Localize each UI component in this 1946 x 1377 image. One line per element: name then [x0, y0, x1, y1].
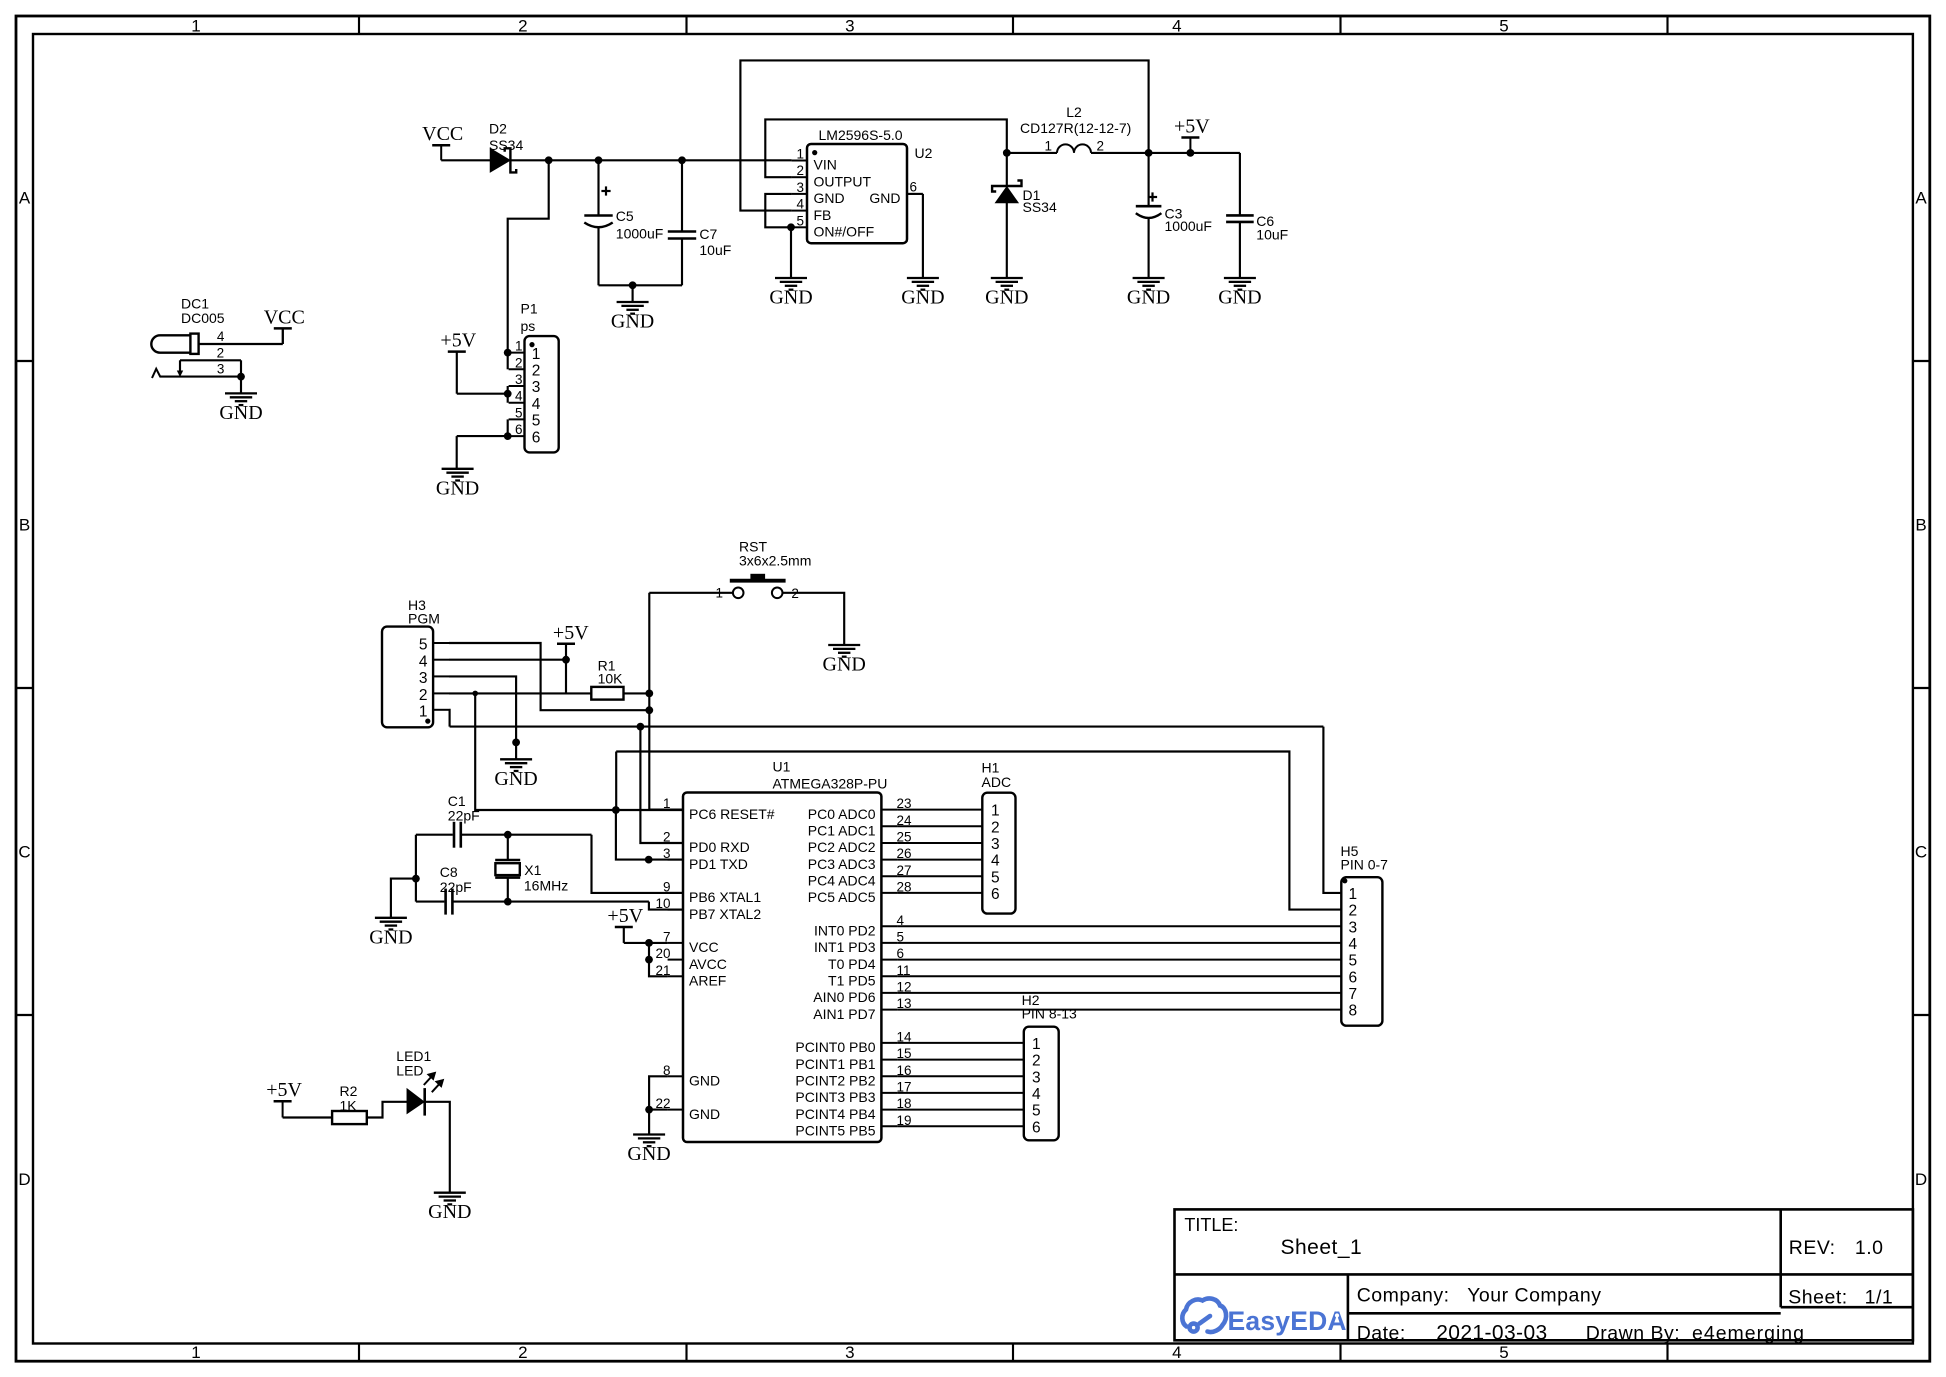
- junction H3 pin2 branch: [472, 691, 478, 697]
- ground crystal caps: [375, 918, 407, 930]
- svg-text:1: 1: [419, 703, 428, 720]
- svg-text:Your Company: Your Company: [1467, 1285, 1601, 1307]
- svg-text:GND: GND: [1127, 287, 1170, 309]
- wire H3pin2/reset horizontal: [475, 693, 683, 810]
- wire U1 GND pins: [649, 1076, 668, 1109]
- connector H2 PIN 8-13: [1024, 1027, 1059, 1141]
- svg-text:D: D: [18, 1170, 30, 1189]
- wire U1 PD2 to H5 pin 3: [897, 925, 1341, 927]
- wire U1 PB3 to H2 pin 4: [897, 1092, 1023, 1094]
- RST button bar: [730, 579, 786, 583]
- frame row tick right: [1913, 360, 1930, 362]
- svg-text:5: 5: [1499, 1343, 1508, 1362]
- wire U1 PB1 to H2 pin 2: [897, 1059, 1023, 1061]
- wire DC1 to ground: [240, 377, 242, 394]
- U2 pin 3 stub: [792, 193, 807, 195]
- svg-text:4: 4: [515, 389, 523, 404]
- ground DC1: [225, 393, 257, 405]
- svg-text:1: 1: [1044, 139, 1052, 154]
- svg-text:PIN 0-7: PIN 0-7: [1341, 857, 1389, 873]
- junction output rail +5V: [1187, 149, 1195, 157]
- wire to AREF: [649, 960, 668, 977]
- junction +5V / H3 pin4: [562, 656, 570, 664]
- svg-text:PGM: PGM: [408, 611, 440, 627]
- svg-text:1000uF: 1000uF: [1165, 218, 1212, 234]
- DC1 spring contact: [152, 369, 160, 378]
- svg-text:C: C: [18, 843, 30, 862]
- U2 pin 2 stub: [792, 176, 807, 178]
- svg-text:PC1 ADC1: PC1 ADC1: [808, 823, 876, 839]
- wire U1 PB0 to H2 pin 1: [897, 1042, 1023, 1044]
- capacitor C3 1000uF: [1148, 153, 1150, 206]
- svg-text:5: 5: [515, 405, 523, 420]
- capacitor C7 10uF: [681, 160, 683, 231]
- U1 pin 13 stub: [881, 1009, 897, 1011]
- svg-text:CD127R(12-12-7): CD127R(12-12-7): [1020, 120, 1131, 136]
- svg-text:PCINT2 PB2: PCINT2 PB2: [795, 1073, 875, 1089]
- svg-text:GND: GND: [369, 926, 412, 948]
- svg-text:PCINT3 PB3: PCINT3 PB3: [795, 1089, 875, 1105]
- svg-text:3: 3: [1349, 919, 1358, 936]
- svg-text:GND: GND: [611, 311, 654, 333]
- wire reset into U1 pin1: [649, 809, 683, 811]
- P1 pin1 indicator dot: [529, 342, 534, 347]
- svg-text:7: 7: [1349, 986, 1358, 1003]
- ground C6: [1224, 278, 1256, 290]
- svg-text:LED: LED: [396, 1062, 423, 1078]
- U1 pin 14 stub: [881, 1042, 897, 1044]
- connector H5 PIN 0-7: [1341, 877, 1382, 1025]
- junction C5-C7 gnd tap: [629, 281, 637, 289]
- H3 pin 4 stub: [433, 659, 449, 661]
- svg-text:D2: D2: [489, 120, 507, 136]
- frame column tick bottom: [1339, 1344, 1341, 1362]
- U1 pin 20 stub: [668, 959, 683, 961]
- P1 pin 1 stub: [509, 352, 525, 354]
- frame row tick left: [16, 687, 33, 689]
- svg-text:5: 5: [532, 413, 541, 430]
- U1 pin 9 stub: [668, 892, 683, 894]
- DC1 switch contact arrow: [179, 360, 181, 370]
- U1 pin 25 stub: [881, 842, 897, 844]
- svg-text:AREF: AREF: [689, 973, 726, 989]
- svg-text:3: 3: [217, 362, 225, 377]
- svg-text:PIN 8-13: PIN 8-13: [1022, 1006, 1077, 1022]
- svg-text:6: 6: [1349, 969, 1358, 986]
- svg-text:PC4 ADC4: PC4 ADC4: [808, 873, 876, 889]
- U2 pin 6 stub: [907, 193, 923, 195]
- svg-text:4: 4: [796, 197, 804, 212]
- svg-text:4: 4: [1032, 1086, 1041, 1103]
- U1 pin 26 stub: [881, 859, 897, 861]
- P1 pin 3 stub: [509, 385, 525, 387]
- frame row tick left: [16, 1014, 33, 1016]
- svg-text:C7: C7: [699, 226, 717, 242]
- MCU U1 ATMEGA328P-PU: [683, 793, 881, 1143]
- svg-text:TITLE:: TITLE:: [1184, 1215, 1238, 1235]
- U1 pin 18 stub: [881, 1109, 897, 1111]
- svg-text:L2: L2: [1066, 104, 1082, 120]
- wire X1 bottom lead: [507, 878, 509, 902]
- svg-text:T1 PD5: T1 PD5: [828, 973, 876, 989]
- svg-text:PCINT5 PB5: PCINT5 PB5: [795, 1123, 875, 1139]
- svg-text:GND: GND: [689, 1106, 720, 1122]
- wire D2 cathode to U2 VIN rail: [512, 159, 792, 161]
- wire C5/C7 bottoms: [599, 284, 683, 286]
- svg-text:OUTPUT: OUTPUT: [814, 173, 872, 189]
- P1 pin 5 stub: [509, 418, 525, 420]
- wire RXD down into U1 pin2: [640, 727, 683, 843]
- wire U1 PB5 to H2 pin 6: [897, 1125, 1023, 1127]
- U2 pin 1 stub: [792, 160, 807, 162]
- wire rail down to C6: [1239, 153, 1241, 216]
- svg-text:GND: GND: [1218, 287, 1261, 309]
- wire U2 OUTPUT loop to switch node: [765, 119, 1007, 177]
- svg-text:10: 10: [655, 896, 670, 911]
- wire DC1 pin4 up to VCC: [282, 328, 284, 344]
- H3 pin 1 stub: [433, 709, 449, 711]
- ground P1: [442, 469, 474, 481]
- wire LED1 cathode to ground: [426, 1102, 450, 1193]
- svg-text:GND: GND: [494, 768, 537, 790]
- P1 pin 2 stub: [509, 368, 525, 370]
- wire gnd to P1 pin6: [457, 435, 508, 437]
- svg-text:2: 2: [1032, 1053, 1041, 1070]
- ground U1: [633, 1135, 665, 1147]
- wire RXD down into H5 pin1: [1323, 727, 1341, 893]
- wire RXD route (H3 pin1 / U1 PD0 / H5 pin1): [450, 726, 1324, 728]
- svg-text:+5V: +5V: [553, 622, 589, 644]
- junction rail/C7: [678, 156, 686, 164]
- svg-text:3: 3: [419, 670, 428, 687]
- svg-text:GND: GND: [627, 1143, 670, 1165]
- wire U1 PD3 to H5 pin 4: [897, 942, 1341, 944]
- svg-text:e4emerging: e4emerging: [1692, 1323, 1805, 1345]
- wire to R1 left: [566, 692, 591, 694]
- svg-text:P1: P1: [521, 301, 538, 317]
- wire C8 right / XTAL2: [454, 901, 649, 903]
- wire C1/C8 left tie: [415, 835, 417, 902]
- power flag +5V: [1181, 136, 1199, 139]
- wire D1 anode to ground: [1006, 203, 1008, 279]
- svg-text:GND: GND: [219, 402, 262, 424]
- svg-text:PC5 ADC5: PC5 ADC5: [808, 889, 876, 905]
- svg-text:GND: GND: [436, 477, 479, 499]
- svg-text:INT0 PD2: INT0 PD2: [814, 923, 876, 939]
- resistor R1 10K: [591, 687, 623, 700]
- svg-text:1: 1: [191, 1343, 200, 1362]
- ground RST: [828, 645, 860, 657]
- svg-text:AIN0 PD6: AIN0 PD6: [813, 989, 875, 1005]
- svg-text:16MHz: 16MHz: [524, 877, 568, 893]
- svg-text:10uF: 10uF: [699, 242, 731, 258]
- junction on H3 pin3 gnd wire: [512, 739, 520, 747]
- connector DC1 DC005 barrel jack: [151, 335, 190, 352]
- wire U1 ADC0 to H1 pin 1: [897, 809, 982, 811]
- junction AVCC/AREF: [645, 956, 653, 964]
- svg-text:SS34: SS34: [1023, 199, 1057, 215]
- H3 pin 5 stub: [433, 642, 449, 644]
- U1 pin 15 stub: [881, 1059, 897, 1061]
- svg-text:5: 5: [1032, 1103, 1041, 1120]
- junction reset/TXD riser: [612, 806, 620, 814]
- U1 pin 11 stub: [881, 975, 897, 977]
- svg-text:U1: U1: [773, 759, 791, 775]
- junction RXD branch: [637, 723, 645, 731]
- U1 pin 7 stub: [668, 942, 683, 944]
- svg-text:GND: GND: [769, 287, 812, 309]
- svg-text:+5V: +5V: [266, 1079, 302, 1101]
- svg-text:GND: GND: [814, 190, 845, 206]
- frame row tick right: [1913, 687, 1930, 689]
- svg-text:2: 2: [518, 1343, 527, 1362]
- power flag +5V at R1: [557, 643, 575, 646]
- junction crystal gnd tap: [412, 875, 420, 883]
- svg-text:3: 3: [663, 846, 671, 861]
- frame column tick bottom: [685, 1344, 687, 1362]
- ground U2 pin6: [907, 278, 939, 290]
- wire U1 ADC2 to H1 pin 3: [897, 842, 982, 844]
- svg-text:2: 2: [217, 345, 225, 360]
- svg-text:LM2596S-5.0: LM2596S-5.0: [819, 127, 903, 143]
- svg-text:1/1: 1/1: [1865, 1287, 1894, 1309]
- wire U1 ADC5 to H1 pin 6: [897, 892, 982, 894]
- frame column tick bottom: [1666, 1344, 1668, 1362]
- frame row tick left: [16, 360, 33, 362]
- U1 pin 23 stub: [881, 809, 897, 811]
- svg-text:1K: 1K: [340, 1098, 358, 1114]
- power flag VCC: [274, 327, 292, 330]
- svg-text:2: 2: [1097, 139, 1105, 154]
- svg-text:DC005: DC005: [181, 310, 225, 326]
- LED LED1: [407, 1089, 423, 1113]
- svg-text:3: 3: [796, 180, 804, 195]
- svg-text:ATMEGA328P-PU: ATMEGA328P-PU: [773, 775, 888, 791]
- wire +5V down: [456, 352, 458, 394]
- svg-text:VIN: VIN: [814, 157, 837, 173]
- svg-text:1: 1: [715, 586, 723, 601]
- wire U2 pin6 to ground: [922, 194, 924, 278]
- junction on TXD wire: [645, 856, 653, 864]
- wire X1 top lead: [507, 835, 509, 860]
- P1 pin 6 stub: [509, 435, 525, 437]
- wire +5V to P1: [457, 393, 508, 395]
- ground H3: [500, 759, 532, 771]
- junction P1 pin1: [504, 349, 512, 357]
- svg-text:Company:: Company:: [1357, 1285, 1450, 1307]
- U1 pin 16 stub: [881, 1075, 897, 1077]
- regulator U2 LM2596S-5.0: [807, 144, 907, 243]
- svg-text:3: 3: [532, 379, 541, 396]
- junction H3 pin5/reset: [645, 706, 653, 714]
- svg-text:1: 1: [532, 346, 541, 363]
- wire reset vertical: [648, 593, 650, 810]
- junction U1 gnd: [645, 1106, 653, 1114]
- U2 pin1 indicator dot: [812, 150, 817, 155]
- ground D1: [991, 278, 1023, 290]
- svg-text:GND: GND: [985, 287, 1028, 309]
- svg-text:T0 PD4: T0 PD4: [828, 956, 876, 972]
- svg-text:2: 2: [419, 687, 428, 704]
- svg-text:4: 4: [217, 329, 225, 344]
- svg-text:PD0 RXD: PD0 RXD: [689, 839, 750, 855]
- power flag +5V: [448, 350, 466, 353]
- wire C1 right to XTAL1 riser: [462, 834, 592, 836]
- U1 pin 17 stub: [881, 1092, 897, 1094]
- U1 pin 5 stub: [881, 942, 897, 944]
- svg-text:3x6x2.5mm: 3x6x2.5mm: [739, 552, 811, 568]
- svg-text:C8: C8: [440, 864, 458, 880]
- svg-text:DC1: DC1: [181, 296, 209, 312]
- svg-text:4: 4: [1172, 1343, 1181, 1362]
- svg-text:PC2 ADC2: PC2 ADC2: [808, 839, 876, 855]
- svg-text:5: 5: [796, 213, 804, 228]
- wire L2 to output rail: [1091, 152, 1240, 154]
- wire P1 gnd stem: [456, 436, 458, 469]
- wire DC1 pin2 to pin3: [240, 360, 242, 376]
- frame column tick bottom: [1012, 1344, 1014, 1362]
- DC1 pin 4 wire: [199, 343, 283, 345]
- H5 pin1 indicator dot: [1342, 878, 1347, 883]
- wire U1 PD6 to H5 pin 7: [897, 992, 1341, 994]
- svg-text:C: C: [1915, 843, 1927, 862]
- P1 pin 4 stub: [509, 402, 525, 404]
- resistor R2 1K: [332, 1111, 367, 1124]
- svg-text:SS34: SS34: [489, 137, 523, 153]
- H3 pin 3 stub: [433, 675, 449, 677]
- H3 pin 2 stub: [433, 692, 449, 694]
- junction U2 pin5 gnd: [787, 223, 795, 231]
- svg-text:3: 3: [991, 836, 1000, 853]
- svg-text:1000uF: 1000uF: [616, 226, 663, 242]
- wire reset to RST pin1: [649, 592, 733, 594]
- svg-text:+5V: +5V: [440, 330, 476, 352]
- inductor L2 CD127R(12-12-7): [1057, 144, 1091, 153]
- svg-text:Sheet_1: Sheet_1: [1281, 1236, 1363, 1259]
- svg-text:PD1 TXD: PD1 TXD: [689, 856, 748, 872]
- svg-text:1: 1: [796, 147, 804, 162]
- DC1 pin 3 wire: [160, 376, 241, 378]
- svg-text:PB7 XTAL2: PB7 XTAL2: [689, 906, 761, 922]
- U1 pin 2 stub: [668, 842, 683, 844]
- svg-text:PCINT1 PB1: PCINT1 PB1: [795, 1056, 875, 1072]
- junction P1 pin3-4 tie: [504, 390, 512, 398]
- svg-text:3: 3: [515, 372, 523, 387]
- svg-text:6: 6: [991, 886, 1000, 903]
- frame row tick right: [1913, 1014, 1930, 1016]
- U1 pin 8 stub: [668, 1075, 683, 1077]
- svg-text:ADC: ADC: [982, 774, 1012, 790]
- frame column tick top: [358, 16, 360, 34]
- wire P1 pin1-pin2: [507, 353, 509, 370]
- svg-text:GND: GND: [869, 190, 900, 206]
- svg-text:GND: GND: [428, 1201, 471, 1223]
- svg-text:AVCC: AVCC: [689, 956, 727, 972]
- svg-text:2: 2: [796, 163, 804, 178]
- frame column tick top: [1666, 16, 1668, 34]
- svg-text:10uF: 10uF: [1256, 227, 1288, 243]
- svg-text:FB: FB: [814, 207, 832, 223]
- wire H3 pin5 to reset net: [449, 643, 649, 710]
- DC1 pin 2 wire: [180, 359, 241, 361]
- svg-text:2: 2: [532, 363, 541, 380]
- svg-text:A: A: [1915, 189, 1927, 208]
- svg-text:6: 6: [515, 422, 523, 437]
- svg-text:10K: 10K: [598, 670, 624, 686]
- wire H3 pin1 jog: [448, 710, 451, 727]
- wire RST pin2 to ground: [783, 593, 845, 645]
- wire rail down to P1 pin1: [508, 160, 549, 352]
- junction C8/X1 bottom: [504, 898, 512, 906]
- junction P1 pin6: [504, 432, 512, 440]
- wire H3 pin2: [449, 692, 566, 694]
- U1 pin 6 stub: [881, 959, 897, 961]
- svg-text:6: 6: [910, 180, 918, 195]
- frame column tick top: [685, 16, 687, 34]
- ground LED1: [434, 1193, 466, 1205]
- U1 pin 1 stub: [668, 809, 683, 811]
- connector H1 ADC: [982, 793, 1015, 914]
- U1 pin 12 stub: [881, 992, 897, 994]
- capacitor C5 1000uF: [597, 160, 599, 215]
- svg-text:PC3 ADC3: PC3 ADC3: [808, 856, 876, 872]
- svg-text:2: 2: [518, 17, 527, 36]
- wire U1 ADC1 to H1 pin 2: [897, 825, 982, 827]
- svg-text:A: A: [19, 189, 31, 208]
- svg-text:REV:: REV:: [1789, 1237, 1836, 1259]
- connector H3 PGM: [382, 627, 433, 728]
- svg-text:1: 1: [991, 803, 1000, 820]
- wire H3 pin3 to ground: [449, 676, 516, 759]
- svg-text:B: B: [1915, 516, 1926, 535]
- ground U2 ON/OFF: [775, 278, 807, 290]
- svg-text:4: 4: [532, 396, 541, 413]
- svg-text:2: 2: [1349, 903, 1358, 920]
- wire U1 PB2 to H2 pin 3: [897, 1075, 1023, 1077]
- svg-text:+5V: +5V: [607, 905, 643, 927]
- connector P1 ps: [525, 336, 559, 452]
- svg-text:2: 2: [663, 830, 671, 845]
- svg-text:1: 1: [191, 17, 200, 36]
- diode D2 SS34 (schottky): [491, 149, 510, 172]
- svg-text:D: D: [1915, 1170, 1927, 1189]
- junction rail/P1 branch: [545, 156, 553, 164]
- svg-text:5: 5: [1499, 17, 1508, 36]
- svg-text:4: 4: [991, 853, 1000, 870]
- svg-text:Date:: Date:: [1357, 1323, 1406, 1345]
- svg-text:2: 2: [515, 355, 523, 370]
- wire XTAL2 jog to U1 pin10: [649, 902, 683, 910]
- ground C3: [1133, 278, 1165, 290]
- svg-text:3: 3: [845, 1343, 854, 1362]
- wire U1 ADC3 to H1 pin 4: [897, 859, 982, 861]
- svg-text:Drawn By:: Drawn By:: [1586, 1323, 1680, 1345]
- svg-text:4: 4: [1172, 17, 1181, 36]
- wire C8 left: [416, 901, 445, 903]
- wire U1 PD5 to H5 pin 6: [897, 975, 1341, 977]
- junction R1/reset: [645, 690, 653, 698]
- svg-text:20: 20: [655, 946, 670, 961]
- junction switch node: [1003, 149, 1011, 157]
- svg-text:5: 5: [419, 637, 428, 654]
- svg-text:AIN1 PD7: AIN1 PD7: [813, 1006, 875, 1022]
- svg-text:1: 1: [1349, 886, 1358, 903]
- wire switch node to D1 cathode: [1006, 153, 1008, 186]
- svg-text:5: 5: [1349, 953, 1358, 970]
- power flag VCC: [432, 144, 450, 147]
- wire +5V stem to R1 row: [565, 644, 567, 694]
- wire C1 left: [416, 834, 453, 836]
